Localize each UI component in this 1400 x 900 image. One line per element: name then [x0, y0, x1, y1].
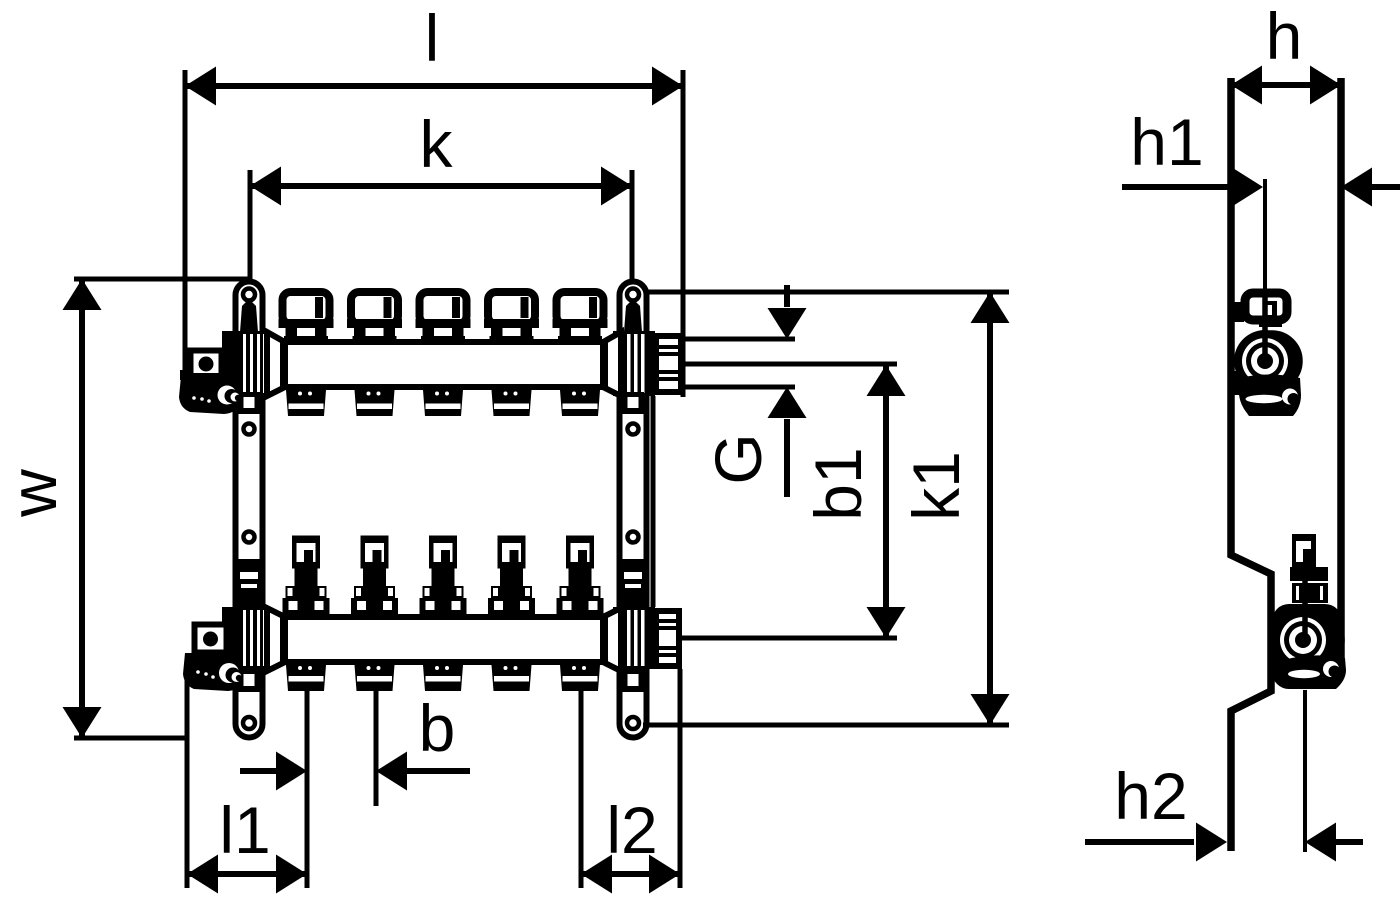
svg-text:l2: l2	[606, 793, 657, 867]
dimension k1	[899, 292, 1010, 725]
G thread outline lines	[684, 337, 795, 342]
valve cap 5	[553, 292, 608, 342]
outlet stub low 5	[560, 665, 600, 691]
outlet stub low 3	[423, 665, 463, 691]
vertical edge line right of bracket	[651, 396, 656, 607]
dimension h1	[1122, 105, 1400, 207]
flow meter 3	[420, 536, 467, 615]
left union nut top bar	[222, 331, 283, 414]
side view valve 2 (return)	[1272, 534, 1346, 689]
valve cap 4	[484, 292, 539, 342]
flow meter 2	[351, 536, 398, 615]
shut-off spindle top-right	[624, 302, 642, 332]
dimension k line	[250, 107, 632, 283]
outlet stub low 1	[286, 665, 326, 691]
side bracket profile	[1231, 78, 1271, 851]
outlet stub top 2	[355, 390, 395, 416]
svg-text:l: l	[425, 1, 440, 75]
drop line outlet5	[579, 690, 584, 888]
svg-text:h1: h1	[1130, 105, 1203, 179]
dimension b1	[801, 365, 906, 638]
valve 1 spindle rod	[1262, 295, 1268, 366]
valve cap 1	[279, 292, 334, 342]
shut-off stack lower-left	[233, 559, 265, 610]
outlet stubs under top bar	[286, 390, 600, 416]
threaded connection lower-right	[655, 611, 680, 666]
valve cap 3	[416, 292, 471, 342]
left elbow top bar	[179, 351, 241, 415]
outlet stub top 1	[286, 390, 326, 416]
outlet stubs under lower bar	[286, 665, 600, 691]
right mounting bracket	[620, 282, 647, 738]
shut-off spindle top-left	[240, 302, 258, 332]
outlet stub top 4	[492, 390, 532, 416]
left mounting bracket	[236, 282, 263, 738]
valve cap 2	[347, 292, 402, 342]
side view valve 1 (supply)	[1229, 293, 1301, 416]
svg-text:l1: l1	[219, 793, 270, 867]
dimension w line	[0, 279, 252, 738]
svg-text:k: k	[420, 107, 454, 181]
right union nut lower bar	[605, 607, 655, 692]
dimension h	[1231, 0, 1341, 105]
left extent line	[185, 678, 190, 888]
flow meters on lower bar	[283, 536, 604, 615]
drop line outlet2	[374, 690, 379, 806]
dimension G arrows	[701, 285, 807, 497]
left union nut lower bar	[222, 607, 283, 692]
dimension l line	[185, 1, 683, 397]
side front face line	[1337, 78, 1345, 658]
valve 1 centre line	[1263, 179, 1267, 360]
dimension l1	[187, 793, 307, 894]
svg-text:b1: b1	[801, 447, 875, 520]
outlet stub low 2	[355, 665, 395, 691]
threaded connection top-right	[655, 336, 681, 392]
lower manifold bar	[285, 617, 603, 662]
svg-text:k1: k1	[899, 451, 973, 521]
left elbow lower bar	[183, 625, 242, 692]
dimension l2	[581, 793, 680, 894]
shut-off stack lower-right	[617, 559, 649, 610]
top manifold bar	[285, 342, 603, 387]
outlet stub low 4	[492, 665, 532, 691]
dimension b	[240, 691, 470, 791]
outlet stub top 3	[423, 390, 463, 416]
svg-text:h2: h2	[1114, 759, 1187, 833]
flow meter 4	[488, 536, 535, 615]
flow meter 1	[283, 536, 330, 615]
right extent line	[678, 669, 683, 888]
flow meter 5	[557, 536, 604, 615]
thermostatic valve caps on top bar	[279, 292, 608, 342]
svg-text:w: w	[0, 469, 70, 518]
b1 extension lines	[684, 362, 897, 367]
right union nut top bar	[605, 331, 655, 414]
drop line outlet1	[305, 690, 310, 888]
svg-text:G: G	[701, 433, 775, 484]
k1 extension lines	[645, 290, 1009, 295]
dimension h2	[1085, 759, 1363, 862]
svg-text:h: h	[1266, 0, 1303, 73]
outlet stub top 5	[560, 390, 600, 416]
valve 2 centre line	[1303, 690, 1307, 852]
svg-text:b: b	[419, 691, 456, 765]
